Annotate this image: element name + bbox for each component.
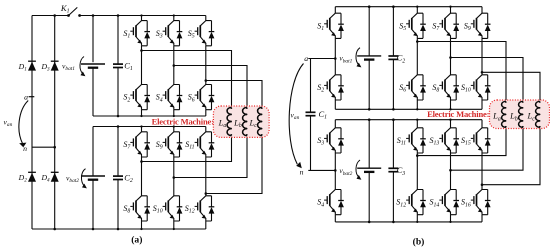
wire: top rail left segment [32,15,69,17]
capacitor C1 (a) [117,16,119,65]
arrow v_an (b) [289,64,303,165]
igbt S6 module [195,85,215,110]
igbt S12 module [195,196,215,221]
igbt S8 module [130,196,150,221]
igbt S5 module [205,16,207,21]
capacitor C2 (a) [117,127,119,177]
wire: phase c bottom (b) [482,127,540,185]
diode D1 [28,61,36,70]
inductor Lc (b) [536,101,541,127]
node a tick [29,96,35,98]
igbt S2 module [130,85,150,110]
battery v_bat1 (a) [92,16,94,63]
wire: leg midpoint [205,157,207,196]
wire: stub to bottom rail [173,221,175,229]
wire: leg midpoint [416,153,418,190]
wire: stub to bottom rail [205,221,207,229]
wire: C1 to n (b) [310,116,312,171]
capacitor C2 (b) [392,7,394,56]
svg-text:(b): (b) [413,236,425,247]
wire: phase c top (a) [206,81,262,109]
wire: leg midpoint [205,46,207,85]
igbt S2 module [324,75,344,100]
arrow v_bat2 (a) [81,169,86,189]
diagram (b) [289,5,549,247]
wire: rail 2 (a) [93,115,206,117]
wire: leg midpoint [141,46,143,85]
igbt S7 module [450,7,452,14]
diagram (a) [4,3,270,246]
igbt S3 module [334,120,336,128]
igbt S10 module [471,75,491,100]
wire: leg midpoint [334,38,336,74]
wire: stub to bottom rail [141,221,143,229]
igbt S3 module [173,16,175,21]
wire: leg midpoint [141,157,143,196]
switch K1 [69,7,78,15]
inductor Lb (b) [519,101,524,127]
igbt S9 module [173,127,175,132]
wire: left column 1 (D1/D2 branch) [31,16,33,230]
inductor La (b) [502,101,507,127]
igbt S5 module [416,7,418,14]
igbt S12 module [406,190,426,215]
capacitor C3 (b) [392,120,394,169]
wire: phase b top (b) [451,58,524,103]
capacitor C1 (b) [306,112,316,115]
wire: rail 3 (a) [93,126,206,128]
igbt S11 module [416,120,418,128]
svg-text:a: a [24,93,28,102]
electric machine box (b) [490,100,550,129]
igbt S14 module [439,190,459,215]
wire: stub to rail [481,215,483,222]
wire: stub to rail [450,215,452,222]
igbt S13 module [450,120,452,128]
junction dots rail1 [53,14,56,17]
arrow v_bat1 (a) [80,57,85,77]
wire: phase c bottom (a) [206,135,262,193]
diode D3 [51,61,59,70]
node n wire (b) [308,169,335,171]
igbt S1 module [141,16,143,21]
wire: bottom rail (b) [335,221,482,223]
igbt S9 module [481,7,483,14]
igbt S16 module [471,190,491,215]
wire: stub to rail [450,100,452,109]
wire: bottom rail (a) [32,228,206,230]
junction dots rail4 [53,228,56,231]
node a wire (b) [308,58,335,60]
wire: top rail right segment [80,15,206,17]
igbt S7 module [141,127,143,132]
wire: stub to rail [334,215,336,222]
igbt S10 module [163,196,183,221]
inductor La (a) [227,107,232,136]
wire: leg midpoint [481,38,483,74]
svg-text:Electric Machine:: Electric Machine: [427,109,490,119]
svg-text:Electric Machine:: Electric Machine: [152,116,215,126]
battery v_bat1 (b) [368,7,370,56]
wire: phase b bottom (a) [174,135,247,177]
diode D2 [28,172,36,181]
wire: phase b bottom (b) [451,127,524,171]
arrow v_bat2 (b) [356,160,361,180]
wire: rail 2 (b) [335,108,482,110]
diode D4 [51,172,59,181]
wire: stub to bottom rail [205,110,207,116]
arrow v_bat1 (b) [356,48,361,68]
igbt S4 module [324,190,344,215]
svg-text:n: n [300,168,304,177]
inductor Lc (a) [258,107,263,136]
wire: stub to rail [416,215,418,222]
electric machine box (a) [213,106,269,137]
wire: leg midpoint [416,38,418,74]
wire: leg midpoint [173,157,175,196]
wire: stub to bottom rail [141,110,143,116]
wire: leg midpoint [450,38,452,74]
battery v_bat2 (a) [92,127,94,177]
junction at n on column 2 [53,146,56,149]
svg-text:(a): (a) [131,234,142,245]
wire: stub to bottom rail [173,110,175,116]
wire: stub to rail [334,100,336,109]
wire: stub to rail [416,100,418,109]
wire: node n horizontal [32,146,55,148]
svg-text:a: a [304,54,308,63]
wire: leg midpoint [450,153,452,190]
wire: leg midpoint [334,153,336,190]
wire: phase a top (a) [142,51,232,109]
wire: phase a bottom (b) [417,127,506,156]
igbt S8 module [439,75,459,100]
wire: leg midpoint [173,46,175,85]
wire: a to C1 (b) [310,59,312,113]
battery v_bat2 (b) [368,120,370,169]
wire: top rail (b) [335,6,482,8]
wire: leg midpoint [481,153,483,190]
wire: phase a top (b) [417,42,506,103]
wire: phase a bottom (a) [142,135,232,161]
igbt S1 module [334,7,336,14]
arrow v_an (a) [19,101,28,144]
inductor Lb (a) [243,107,248,136]
wire: rail 3 (b) [335,119,482,121]
wire: left column 2 (D3/D4 branch) [54,16,56,230]
svg-text:n: n [23,144,27,153]
wire: phase b top (a) [174,66,247,109]
igbt S6 module [406,75,426,100]
igbt S11 module [205,127,207,132]
igbt S4 module [163,85,183,110]
igbt S15 module [481,120,483,128]
wire: phase c top (b) [482,72,540,102]
wire: stub to rail [481,100,483,109]
